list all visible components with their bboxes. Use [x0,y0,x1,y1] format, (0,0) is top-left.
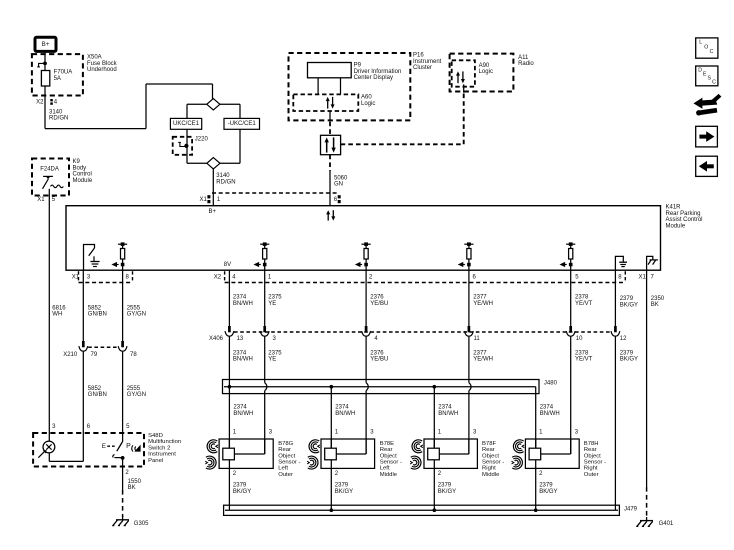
fuse block X50A Underhood [32,54,118,95]
svg-text:6816: 6816 [52,306,66,312]
svg-text:RD/GN: RD/GN [216,179,235,185]
wire B+ to fuse F70UA [44,52,46,71]
svg-text:BN/WH: BN/WH [335,411,355,417]
arrows in A90 [456,71,465,83]
connector X406 on 2374 pin 13 [225,326,234,336]
svg-text:P16: P16 [413,53,424,59]
svg-text:2350: 2350 [651,296,665,302]
svg-text:B78E: B78E [380,441,394,447]
splice pack J480 [223,380,558,394]
ground G401 [636,517,674,527]
serial data wire 5060 GN to pin 6 [330,155,348,206]
svg-text:GN: GN [334,182,343,188]
serial data wire gateway to A90 [341,84,464,144]
svg-text:Radio: Radio [518,61,534,67]
svg-text:BN/WH: BN/WH [438,411,458,417]
logic A90 [452,60,493,86]
wire 2375 YE J480 to sensor 1 [264,391,266,454]
svg-text:YE: YE [268,357,276,363]
svg-text:BK/GY: BK/GY [620,357,638,363]
sensor B78F Rear Object Sensor Right Middle [410,430,504,478]
wire -UKC/CE1 to merge [220,129,240,163]
hop 2377 over J480 [469,383,471,391]
svg-text:1550: 1550 [128,479,142,485]
wire 5852 GN/BN lower [83,351,107,433]
svg-text:2377: 2377 [473,295,487,301]
svg-text:11: 11 [474,336,481,342]
svg-text:Right: Right [482,466,496,472]
power symbol B+ [35,37,56,51]
svg-text:2555: 2555 [127,306,141,312]
svg-text:Sensor -: Sensor - [278,460,300,466]
pull-up resistor pin X1-8 [111,242,127,270]
icon LOC [696,38,718,58]
svg-text:Body: Body [73,165,87,171]
pull-up resistor pin X2-6 [458,242,474,270]
svg-text:2379: 2379 [539,483,553,489]
svg-text:YE/VT: YE/VT [575,357,593,363]
wire 5852 GN/BN upper [83,270,107,341]
svg-text:E: E [102,443,106,450]
serial data wire A60 to gateway node [329,111,331,134]
svg-text:Fuse Block: Fuse Block [87,61,118,67]
wire 3140 RD/GN from fuse to split [45,84,213,129]
svg-text:Multifunction: Multifunction [148,439,181,445]
svg-text:F70UA: F70UA [54,70,73,76]
option box -UKC/CE1 [224,118,260,129]
svg-text:Rear: Rear [584,447,597,453]
svg-text:78: 78 [130,352,137,358]
node diamond merge [207,158,220,169]
wire 2378 YE/VT from pin X2-5 [571,270,593,326]
logic A60 [293,94,375,111]
svg-text:Driver Information: Driver Information [354,69,402,75]
wire 2378 YE/VT to sensor 4 pin 3 [570,439,572,454]
radio A11 [450,54,535,92]
svg-text:YE/VT: YE/VT [575,301,593,307]
display P9 Driver Information Center Display [308,63,402,95]
svg-text:Left: Left [380,466,390,472]
connector X406 on 2375 pin 3 [260,326,269,336]
svg-text:P: P [126,443,131,450]
svg-text:X210: X210 [63,352,78,358]
svg-text:Center Display: Center Display [354,75,393,81]
wire 2374 BN/WH tap to sensor 2 pin 1 [331,387,355,449]
svg-text:RD/GN: RD/GN [49,116,68,122]
serial data gateway node [321,135,341,154]
svg-text:F24DA: F24DA [40,166,59,172]
svg-text:Rear: Rear [278,447,291,453]
svg-text:Module: Module [73,178,93,184]
option box UKC/CE1 [170,118,201,129]
connector X2 pin 4 of X50A [36,99,58,105]
svg-text:Object: Object [482,453,499,459]
wire 2377 YE/WH from pin X2-6 [469,270,493,326]
svg-text:G305: G305 [134,521,149,527]
svg-text:YE: YE [268,301,276,307]
svg-text:2377: 2377 [473,350,487,356]
svg-text:Object: Object [584,453,601,459]
svg-text:D: D [698,68,702,74]
svg-text:BK/GY: BK/GY [233,489,251,495]
svg-text:C: C [710,49,714,55]
svg-text:2374: 2374 [540,405,554,411]
svg-text:Sensor -: Sensor - [482,460,504,466]
svg-text:12: 12 [620,336,627,342]
svg-text:Rear Parking: Rear Parking [666,211,701,217]
svg-text:X2: X2 [214,275,222,281]
svg-text:GY/GN: GY/GN [127,392,146,398]
connector X406 on 2379 pin 12 [611,326,620,336]
svg-text:Underhood: Underhood [87,67,117,73]
wire 2379 BK/GY sensor 1 to J479 [229,468,251,510]
svg-text:2374: 2374 [233,405,247,411]
connector X210 on 5852 [79,341,88,351]
internal chassis ground at pin X1-7 [647,256,658,270]
svg-text:Sensor -: Sensor - [584,460,606,466]
wire 2555 GY/GN upper [123,270,146,341]
svg-text:Instrument: Instrument [413,59,442,65]
icon arrow right [696,126,718,147]
hop 2376 over J480 [366,383,368,391]
sensor B78H Rear Object Sensor Right Outer [512,430,607,478]
ground G305 [112,516,149,527]
svg-text:2379: 2379 [335,483,349,489]
switch S48D Multifunction Switch 2 [33,424,181,476]
wire 2374 BN/WH to sensor 1 pin 1 [229,387,253,449]
wire 2350 BK from pin X1-7 to G401 [647,270,665,518]
splice pack J479 [224,505,638,515]
svg-text:GY/GN: GY/GN [127,312,146,318]
svg-text:BN/WH: BN/WH [233,357,253,363]
wire 2379 BK/GY sensor 2 to J479 [331,468,353,510]
svg-text:10: 10 [576,336,583,342]
svg-text:Panel: Panel [148,458,163,464]
icon jump arrows [694,94,722,116]
svg-text:79: 79 [91,352,98,358]
wire 2374 BN/WH from pin X2-4 [229,270,253,326]
svg-text:B+: B+ [209,209,217,215]
wire 2374 BN/WH end tap to sensor 4 pin 1 [536,387,560,449]
indicator lamp in S48D [38,433,83,461]
hop 2375 over J480 [265,383,267,391]
svg-text:2374: 2374 [233,295,247,301]
internal ground at pin X2-8 [615,256,627,270]
svg-text:Instrument: Instrument [148,452,176,458]
svg-text:B+: B+ [42,41,50,48]
wire left branch to UKC/CE1 [187,104,207,118]
wire 6816 WH K9 to S48D [49,196,66,434]
wire 2377 YE/WH J480 to sensor 3 [468,391,470,454]
svg-text:X1: X1 [639,275,647,281]
svg-text:8V: 8V [224,262,231,268]
svg-text:Logic: Logic [479,69,493,75]
arrows in gateway node [325,137,336,152]
connector X2 bracket bottom [214,271,626,282]
svg-text:YE/BU: YE/BU [370,301,388,307]
svg-text:5A: 5A [54,76,61,82]
svg-text:Cluster: Cluster [413,65,432,71]
node diamond split [207,99,220,110]
svg-text:Switch 2: Switch 2 [148,445,170,451]
svg-text:2378: 2378 [575,295,589,301]
connector X1 pin 7 bottom [639,275,655,281]
svg-text:BK/GY: BK/GY [539,489,557,495]
svg-text:Rear: Rear [482,447,495,453]
svg-text:Object: Object [278,453,295,459]
svg-text:S48D: S48D [148,433,163,439]
svg-text:B78F: B78F [482,441,496,447]
icon arrow left [696,156,718,176]
svg-text:3140: 3140 [49,109,63,115]
connector X406 on 2376 pin 4 [362,326,371,336]
svg-text:2374: 2374 [438,405,452,411]
svg-text:J479: J479 [624,507,638,513]
arrows in A60 [326,97,335,109]
connector X406 on 2377 pin 11 [465,326,474,336]
wire 2376 YE/BU J480 to sensor 2 [365,391,367,454]
wire 2374 BN/WH tap to sensor 3 pin 1 [434,387,458,449]
svg-text:L: L [699,40,702,46]
connector X406 on 2378 pin 10 [566,326,575,336]
svg-text:13: 13 [237,336,244,342]
svg-text:Left: Left [278,466,288,472]
svg-text:YE/BU: YE/BU [370,357,388,363]
wire 3140 RD/GN to K41R pin X1-1 [213,169,235,206]
svg-text:BK/GY: BK/GY [438,489,456,495]
connector X406 labels and link [209,332,627,342]
svg-text:S: S [708,76,712,82]
svg-text:Logic: Logic [361,101,375,107]
svg-text:B78H: B78H [584,441,599,447]
svg-text:Rear: Rear [380,447,393,453]
svg-text:Assist Control: Assist Control [666,217,703,223]
svg-text:P9: P9 [354,63,362,69]
internal switch to ground at pin X1-3 [84,245,100,271]
wire 2376 YE/BU from pin X2-2 [366,270,388,326]
svg-text:BK/GY: BK/GY [620,302,638,308]
svg-text:2379: 2379 [620,350,634,356]
wire 1550 BK to G305 [123,467,142,518]
pull-up resistor pin X2-1 [254,242,270,270]
svg-text:2379: 2379 [233,483,247,489]
svg-text:2378: 2378 [575,350,589,356]
svg-text:2374: 2374 [233,350,247,356]
pull-up resistor pin X2-2 [355,242,371,270]
wire 2379 BK/GY sensor 3 to J479 [434,468,456,510]
module K41R Rear Parking Assist Control Module [66,205,703,271]
svg-text:Middle: Middle [482,472,500,478]
svg-text:BN/WH: BN/WH [233,301,253,307]
connector X1 pin 5 of K9 [37,197,56,203]
module K9 Body Control Module [32,159,93,196]
svg-text:G401: G401 [659,521,674,527]
svg-text:Module: Module [666,223,686,229]
svg-text:Outer: Outer [278,472,293,478]
connector X210 labels and link [63,347,137,358]
icon DESC [696,66,718,86]
svg-text:K41R: K41R [666,205,682,211]
wire 2375 YE from pin X2-1 [265,270,283,326]
svg-text:C: C [712,80,716,86]
wire UKC/CE1 to merge [187,129,207,163]
svg-text:A11: A11 [518,55,529,61]
svg-text:BN/WH: BN/WH [233,411,253,417]
wire 2379 BK/GY from pin X2-8 [615,270,638,326]
svg-text:-UKC/CE1: -UKC/CE1 [228,121,257,127]
svg-text:2374: 2374 [335,405,349,411]
svg-text:Middle: Middle [380,472,398,478]
svg-text:J480: J480 [544,381,558,387]
svg-text:Sensor -: Sensor - [380,460,402,466]
fuse F70UA 5A [41,70,72,86]
svg-text:X1: X1 [200,197,208,203]
svg-text:UKC/CE1: UKC/CE1 [173,121,200,127]
wire 2555 GY/GN lower [123,351,146,433]
svg-text:Outer: Outer [584,472,599,478]
svg-text:J220: J220 [195,136,209,142]
svg-text:GN/BN: GN/BN [88,312,107,318]
terminal in X50A [37,62,47,67]
svg-text:YE/WH: YE/WH [473,301,493,307]
svg-text:X406: X406 [209,336,224,342]
connector pin 6 top [334,195,341,203]
svg-text:2379: 2379 [620,296,634,302]
svg-text:BK: BK [128,485,136,491]
svg-text:X2: X2 [36,99,44,105]
pull-up resistor pin X2-5 [560,242,576,270]
svg-text:2376: 2376 [370,350,384,356]
svg-text:B78G: B78G [278,441,293,447]
svg-text:Control: Control [73,172,92,178]
svg-text:A90: A90 [479,63,490,69]
svg-text:X50A: X50A [87,55,102,61]
instrument cluster P16 [289,53,442,121]
svg-text:X1: X1 [37,197,45,203]
svg-text:BK/GY: BK/GY [335,489,353,495]
svg-text:GN/BN: GN/BN [88,392,107,398]
momentary switch in S48D [102,433,141,467]
connector X1 pin 1 top [200,193,338,203]
wire right branch -UKC/CE1 [220,104,240,118]
connector X210 on 2555 [118,341,127,351]
svg-text:YE/WH: YE/WH [473,357,493,363]
svg-text:K9: K9 [73,159,81,165]
svg-text:O: O [704,44,708,50]
svg-text:5060: 5060 [334,175,348,181]
svg-text:2375: 2375 [268,350,282,356]
svg-text:BK: BK [651,302,659,308]
sensor B78G Rear Object Sensor Left Outer [205,430,300,478]
svg-text:5852: 5852 [88,306,102,312]
connector X1 bracket bottom left [72,271,133,282]
wire 2379 BK/GY sensor 4 to J479 [536,468,558,510]
svg-text:BN/WH: BN/WH [540,411,560,417]
connector J220 [173,136,209,155]
fuse F24DA in K9 [40,166,63,195]
svg-text:2379: 2379 [438,483,452,489]
svg-text:3140: 3140 [216,173,230,179]
svg-text:5852: 5852 [88,386,102,392]
svg-text:Right: Right [584,466,598,472]
svg-text:WH: WH [52,312,62,318]
svg-text:2555: 2555 [127,386,141,392]
svg-text:2375: 2375 [268,295,282,301]
arrows inside module below pin 6 [326,210,335,220]
svg-text:E: E [703,72,707,78]
svg-text:2376: 2376 [370,295,384,301]
svg-text:A60: A60 [361,95,372,101]
sensor B78E Rear Object Sensor Left Middle [307,430,402,478]
svg-text:Object: Object [380,453,397,459]
